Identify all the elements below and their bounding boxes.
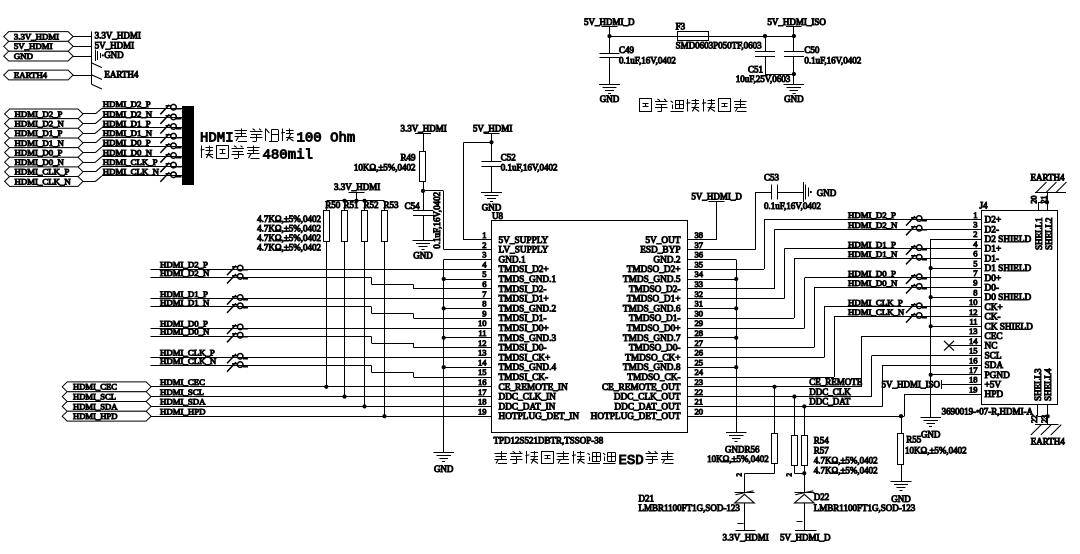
svg-text:D2 SHIELD: D2 SHIELD [985,235,1032,245]
svg-text:SDA: SDA [985,361,1004,371]
svg-text:3.3V_HDMI: 3.3V_HDMI [401,124,447,134]
svg-text:2: 2 [973,229,977,239]
svg-text:TMDSO_CK+: TMDSO_CK+ [625,353,680,363]
svg-text:GND: GND [921,430,941,440]
svg-text:TMDSO_D1+: TMDSO_D1+ [627,295,681,305]
svg-text:F3: F3 [676,21,686,31]
svg-text:HDMI_D0_N: HDMI_D0_N [848,278,898,288]
svg-text:GNDR56: GNDR56 [725,444,760,454]
svg-text:9: 9 [973,278,977,288]
svg-text:HDMI_D2_P: HDMI_D2_P [848,210,896,220]
svg-text:HDMI_D0_P: HDMI_D0_P [848,268,896,278]
svg-text:HDMI_D1_P: HDMI_D1_P [15,128,63,138]
svg-text:5V_SUPPLY: 5V_SUPPLY [499,236,549,246]
svg-text:HDMI_D0_P: HDMI_D0_P [15,147,63,157]
svg-text:HDMI_D0_N: HDMI_D0_N [160,327,210,337]
svg-text:U8: U8 [492,211,503,221]
svg-text:HDMI_D1_P: HDMI_D1_P [103,118,151,128]
svg-text:16: 16 [969,355,978,365]
svg-text:8: 8 [973,287,977,297]
svg-text:HDMI_D1_N: HDMI_D1_N [103,128,153,138]
svg-text:37: 37 [695,240,704,250]
svg-text:1: 1 [973,210,977,220]
svg-text:SHELL4: SHELL4 [1043,368,1053,401]
svg-text:4.7KΩ,±5%,0402: 4.7KΩ,±5%,0402 [257,223,321,233]
svg-text:12: 12 [478,338,487,348]
svg-text:TMDSI_D0-: TMDSI_D0- [499,344,547,354]
svg-text:R52: R52 [364,200,379,210]
svg-text:D2-: D2- [985,225,999,235]
svg-text:EARTH4: EARTH4 [104,70,138,80]
svg-text:3.3V_HDMI: 3.3V_HDMI [14,31,59,41]
svg-text:HDMI_D0_N: HDMI_D0_N [103,147,153,157]
svg-text:HDMI_D1_N: HDMI_D1_N [160,297,210,307]
svg-text:2: 2 [736,473,744,477]
svg-text:C52: C52 [501,153,516,163]
svg-text:14: 14 [969,336,978,346]
svg-text:31: 31 [695,299,704,309]
svg-text:C50: C50 [804,45,820,55]
svg-text:R51: R51 [344,200,359,210]
svg-text:HDMI_D2_N: HDMI_D2_N [103,109,153,119]
svg-text:HDMI_D0_N: HDMI_D0_N [15,157,65,167]
svg-text:HDMI_HPD: HDMI_HPD [73,411,117,421]
svg-text:5V_HDMI: 5V_HDMI [473,124,513,134]
svg-text:PGND: PGND [985,371,1011,381]
svg-text:GND: GND [413,250,433,260]
svg-text:10KΩ,±5%,0402: 10KΩ,±5%,0402 [905,445,967,455]
svg-text:TMDSI_D2-: TMDSI_D2- [499,285,547,295]
svg-text:TMDS_GND.1: TMDS_GND.1 [499,275,557,285]
svg-text:DDC_CLK_IN: DDC_CLK_IN [499,393,557,403]
svg-text:HDMI_D0_P: HDMI_D0_P [103,138,151,148]
svg-text:CE_REMOTE_IN: CE_REMOTE_IN [499,383,568,393]
svg-text:CK SHIELD: CK SHIELD [985,322,1034,332]
svg-text:HDMI_D2_N: HDMI_D2_N [160,268,210,278]
svg-text:27: 27 [695,338,704,348]
svg-text:LMBR1100FT1G,SOD-123: LMBR1100FT1G,SOD-123 [814,503,916,513]
svg-text:TMDS_GND.4: TMDS_GND.4 [499,363,557,373]
svg-text:5V_HDMI_D: 5V_HDMI_D [691,192,742,202]
svg-text:7: 7 [973,268,977,278]
svg-text:36: 36 [695,250,704,260]
svg-text:6: 6 [482,279,486,289]
svg-text:TMDSO_D0+: TMDSO_D0+ [627,324,681,334]
svg-text:HDMI_D2_N: HDMI_D2_N [15,119,65,129]
svg-text:5V_HDMI: 5V_HDMI [14,41,53,51]
svg-text:C49: C49 [619,45,635,55]
svg-text:25: 25 [695,357,704,367]
svg-text:HDMI_CEC: HDMI_CEC [73,382,117,392]
svg-text:DDC_DAT: DDC_DAT [809,397,851,407]
svg-text:HOTPLUG_DET_OUT: HOTPLUG_DET_OUT [591,412,681,422]
svg-text:HDMI_SCL: HDMI_SCL [160,387,204,397]
svg-text:TMDS_GND.3: TMDS_GND.3 [499,334,557,344]
svg-text:HDMI_SCL: HDMI_SCL [73,392,116,402]
svg-text:16: 16 [478,377,487,387]
svg-text:D0+: D0+ [985,274,1002,284]
svg-text:24: 24 [695,367,704,377]
svg-text:HOTPLUG_DET_IN: HOTPLUG_DET_IN [499,412,580,422]
svg-text:HDMI_CLK_N: HDMI_CLK_N [15,176,72,186]
svg-text:HDMI_CLK_N: HDMI_CLK_N [103,167,160,177]
svg-text:3.3V_HDMI: 3.3V_HDMI [723,533,769,543]
svg-text:NC: NC [985,342,998,352]
svg-text:30: 30 [695,308,704,318]
svg-text:HDMI_CLK_P: HDMI_CLK_P [103,157,158,167]
svg-text:TMDS_GND.8: TMDS_GND.8 [623,363,681,373]
svg-text:5V_HDMI: 5V_HDMI [95,40,135,50]
svg-text:22: 22 [1030,415,1039,423]
svg-text:GND: GND [600,94,620,104]
svg-text:TMDSO_CK-: TMDSO_CK- [627,373,680,383]
svg-text:4.7KΩ,±5%,0402: 4.7KΩ,±5%,0402 [814,455,878,465]
svg-text:5V_HDMI_ISO: 5V_HDMI_ISO [767,17,826,27]
svg-text:0.1uF,16V,0402: 0.1uF,16V,0402 [764,201,821,211]
svg-text:18: 18 [478,397,487,407]
svg-text:CE_REMOTE_OUT: CE_REMOTE_OUT [602,383,681,393]
svg-text:5: 5 [482,269,486,279]
svg-text:10: 10 [478,318,487,328]
svg-text:22: 22 [695,387,704,397]
svg-text:0.1uF,16V,0402: 0.1uF,16V,0402 [432,192,442,249]
svg-text:23: 23 [695,377,704,387]
svg-text:HDMI_D2_N: HDMI_D2_N [848,220,898,230]
svg-text:TMDS_GND.7: TMDS_GND.7 [623,334,681,344]
svg-text:GND: GND [104,50,124,60]
svg-text:23: 23 [1040,415,1049,423]
svg-text:TMDS_GND.5: TMDS_GND.5 [623,275,681,285]
svg-text:SCL: SCL [985,351,1002,361]
svg-text:CEC: CEC [985,332,1003,342]
svg-text:3690019-•07-R,HDMI-A: 3690019-•07-R,HDMI-A [942,406,1034,416]
svg-text:5V_HDMI_ISO: 5V_HDMI_ISO [882,380,941,390]
svg-text:D0-: D0- [985,284,999,294]
svg-text:5V_OUT: 5V_OUT [645,236,680,246]
svg-text:HPD: HPD [985,390,1004,400]
svg-text:17: 17 [478,387,487,397]
svg-text:HDMI_D1_P: HDMI_D1_P [848,239,896,249]
svg-text:D1 SHIELD: D1 SHIELD [985,264,1032,274]
svg-text:HDMI_HPD: HDMI_HPD [160,407,205,417]
svg-text:+5V: +5V [985,381,1002,391]
svg-text:TMDSI_D2+: TMDSI_D2+ [499,265,549,275]
svg-text:TMDSO_D2+: TMDSO_D2+ [627,265,681,275]
svg-text:10KΩ,±5%,0402: 10KΩ,±5%,0402 [354,162,416,172]
svg-text:SHELL2: SHELL2 [1044,218,1054,251]
svg-text:TMDSI_D1-: TMDSI_D1- [499,314,547,324]
svg-text:2: 2 [786,473,794,477]
svg-text:13: 13 [969,326,978,336]
svg-text:33: 33 [695,279,704,289]
svg-text:D21: D21 [639,493,655,503]
svg-text:HDMI_D2_P: HDMI_D2_P [103,99,151,109]
svg-text:HDMI_CLK_P: HDMI_CLK_P [15,167,70,177]
svg-text:HDMI_SDA: HDMI_SDA [73,401,118,411]
svg-text:TMDS_GND.6: TMDS_GND.6 [623,304,681,314]
svg-text:10: 10 [969,297,978,307]
svg-text:7: 7 [482,289,486,299]
svg-text:C54: C54 [405,201,421,211]
svg-text:3.3V_HDMI: 3.3V_HDMI [334,182,380,192]
svg-text:D1-: D1- [985,254,999,264]
svg-text:6: 6 [973,249,977,259]
svg-text:HDMI_CLK_P: HDMI_CLK_P [848,298,903,308]
svg-text:1: 1 [482,230,486,240]
svg-text:15: 15 [478,367,487,377]
svg-text:CE_REMOTE: CE_REMOTE [809,377,863,387]
svg-text:SMD0603P050TF,0603: SMD0603P050TF,0603 [676,41,763,51]
svg-text:28: 28 [695,328,704,338]
svg-text:26: 26 [695,348,704,358]
svg-text:9: 9 [482,308,486,318]
svg-text:HDMI_D1_N: HDMI_D1_N [15,138,65,148]
svg-text:EARTH4: EARTH4 [1031,436,1065,446]
svg-text:TMDSO_D1-: TMDSO_D1- [629,314,681,324]
svg-text:19: 19 [478,406,487,416]
svg-text:32: 32 [695,289,704,299]
svg-text:TMDSO_D0-: TMDSO_D0- [629,344,681,354]
svg-text:GND.2: GND.2 [653,255,680,265]
svg-text:21: 21 [1039,196,1048,204]
svg-text:20: 20 [695,406,704,416]
svg-text:C53: C53 [764,173,780,183]
svg-text:HDMI_SDA: HDMI_SDA [160,397,206,407]
svg-text:R53: R53 [384,200,400,210]
svg-text:5V_HDMI_D: 5V_HDMI_D [780,533,831,543]
svg-text:10uF,25V,0603: 10uF,25V,0603 [736,74,791,84]
svg-text:D1+: D1+ [985,245,1002,255]
svg-text:CK-: CK- [985,313,1001,323]
svg-text:GND: GND [817,188,837,198]
svg-text:100 Ohm: 100 Ohm [297,131,356,147]
svg-text:0.1uF,16V,0402: 0.1uF,16V,0402 [501,162,558,172]
svg-text:2: 2 [482,240,486,250]
svg-text:R57: R57 [814,445,830,455]
svg-text:4.7KΩ,±5%,0402: 4.7KΩ,±5%,0402 [257,233,321,243]
svg-text:HDMI_D1_N: HDMI_D1_N [848,249,898,259]
svg-text:5V_HDMI_D: 5V_HDMI_D [584,17,635,27]
svg-text:ESD: ESD [619,453,644,469]
svg-text:10KΩ,±5%,0402: 10KΩ,±5%,0402 [707,454,769,464]
svg-text:4.7KΩ,±5%,0402: 4.7KΩ,±5%,0402 [814,465,878,475]
svg-text:11: 11 [969,317,977,327]
svg-text:TMDSI_D1+: TMDSI_D1+ [499,295,549,305]
svg-text:35: 35 [695,259,704,269]
svg-text:R49: R49 [400,152,416,162]
svg-text:HDMI_CEC: HDMI_CEC [160,377,205,387]
svg-text:TPD12S521DBTR,TSSOP-38: TPD12S521DBTR,TSSOP-38 [494,436,604,446]
svg-text:8: 8 [482,299,486,309]
svg-text:GND: GND [891,494,911,504]
svg-text:20: 20 [1030,196,1039,204]
svg-text:TMDS_GND.2: TMDS_GND.2 [499,304,557,314]
svg-text:11: 11 [478,328,486,338]
svg-text:4.7KΩ,±5%,0402: 4.7KΩ,±5%,0402 [257,214,321,224]
svg-text:EARTH4: EARTH4 [1031,172,1065,182]
svg-text:GND: GND [434,464,454,474]
svg-text:21: 21 [695,397,704,407]
svg-text:15: 15 [969,346,978,356]
svg-text:17: 17 [969,365,978,375]
svg-text:CK+: CK+ [985,303,1003,313]
svg-text:HDMI_D2_P: HDMI_D2_P [15,109,63,119]
svg-text:J4: J4 [980,200,989,210]
svg-text:18: 18 [969,375,978,385]
svg-text:TMDSI_CK+: TMDSI_CK+ [499,353,551,363]
svg-text:13: 13 [478,348,487,358]
svg-text:HDMI_CLK_N: HDMI_CLK_N [848,307,905,317]
svg-text:38: 38 [695,230,704,240]
svg-text:12: 12 [969,307,978,317]
svg-text:R54: R54 [814,436,830,446]
svg-text:29: 29 [695,318,704,328]
svg-text:3.3V_HDMI: 3.3V_HDMI [95,31,141,41]
svg-text:0.1uF,16V,0402: 0.1uF,16V,0402 [804,55,861,65]
svg-text:LMBR1100FT1G,SOD-123: LMBR1100FT1G,SOD-123 [639,503,741,513]
svg-text:14: 14 [478,357,487,367]
svg-text:DDC_CLK: DDC_CLK [809,387,851,397]
svg-text:SHELL3: SHELL3 [1033,368,1043,401]
svg-text:DDC_DAT_OUT: DDC_DAT_OUT [614,402,680,412]
svg-text:HDMI_CLK_N: HDMI_CLK_N [160,356,217,366]
svg-text:C51: C51 [748,64,763,74]
svg-text:SHELL1: SHELL1 [1034,218,1044,251]
svg-text:R55: R55 [906,434,922,444]
svg-text:0.1uF,16V,0402: 0.1uF,16V,0402 [619,55,676,65]
svg-text:DDC_DAT_IN: DDC_DAT_IN [499,402,556,412]
svg-text:34: 34 [695,269,704,279]
svg-text:LV_SUPPLY: LV_SUPPLY [499,246,549,256]
svg-text:5: 5 [973,258,977,268]
svg-text:3: 3 [973,220,977,230]
svg-text:EARTH4: EARTH4 [14,70,48,80]
svg-text:R50: R50 [325,200,341,210]
svg-text:3: 3 [482,250,486,260]
svg-text:TMDSO_D2-: TMDSO_D2- [629,285,681,295]
svg-text:DDC_CLK_OUT: DDC_CLK_OUT [614,393,681,403]
svg-text:GND: GND [14,51,33,61]
svg-text:GND: GND [784,94,804,104]
svg-text:4.7KΩ,±5%,0402: 4.7KΩ,±5%,0402 [257,242,321,252]
svg-text:TMDSI_CK-: TMDSI_CK- [499,373,549,383]
svg-text:480mil: 480mil [263,148,313,164]
svg-text:19: 19 [969,384,978,394]
svg-text:D22: D22 [814,492,830,502]
svg-text:TMDSI_D0+: TMDSI_D0+ [499,324,549,334]
svg-text:D2+: D2+ [985,216,1002,226]
svg-text:HDMI: HDMI [200,131,234,147]
svg-text:GND.1: GND.1 [499,255,526,265]
svg-text:D0 SHIELD: D0 SHIELD [985,293,1032,303]
svg-text:ESD_BYP: ESD_BYP [640,246,680,256]
